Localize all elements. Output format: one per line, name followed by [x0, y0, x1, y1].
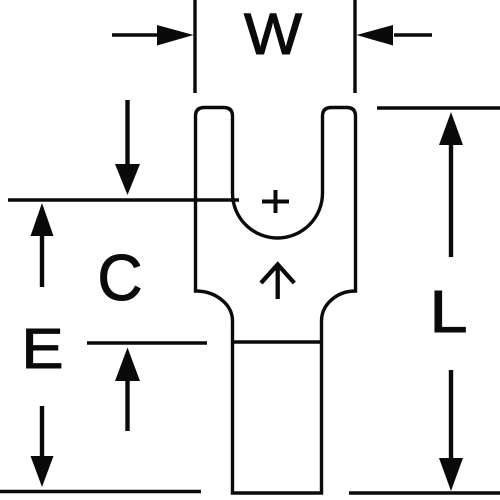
svg-text:C: C — [98, 241, 143, 314]
svg-text:L: L — [430, 279, 468, 345]
svg-text:W: W — [244, 2, 302, 67]
svg-text:E: E — [22, 317, 64, 381]
